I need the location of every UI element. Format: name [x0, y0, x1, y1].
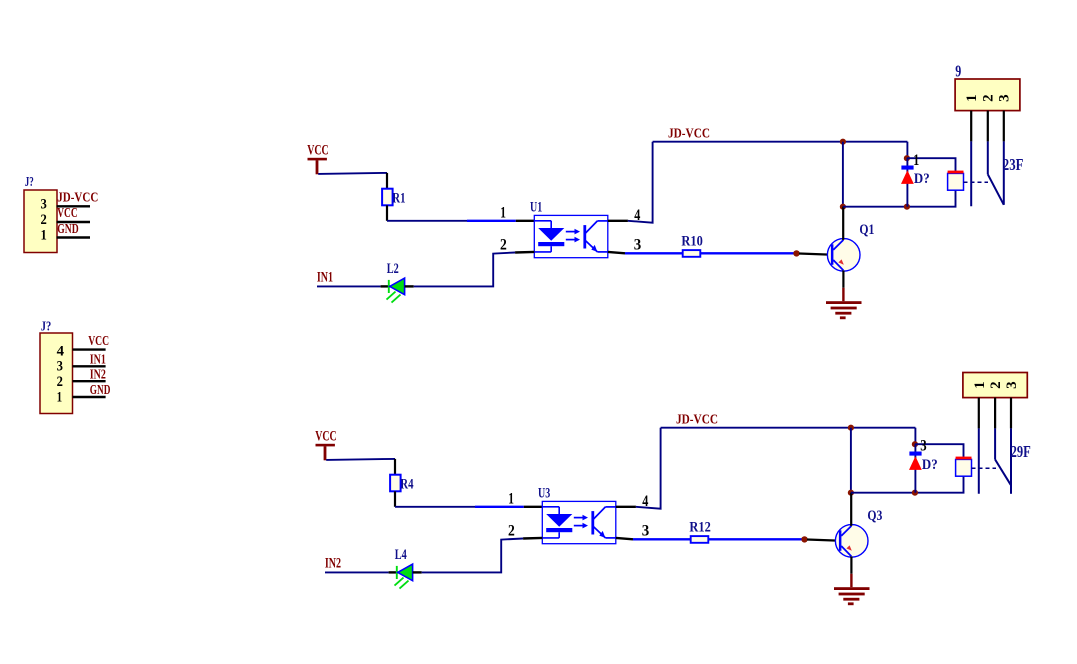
- wire junction to transistor base: [807, 540, 838, 541]
- svg-text:R4: R4: [400, 476, 414, 492]
- pin 2 stub of relay top: [987, 111, 989, 142]
- junction collector-bottom rail: [840, 204, 846, 210]
- wire emitter to ground: [842, 288, 844, 301]
- wire R1 to U1 pin 1: [387, 220, 467, 222]
- wire R12 to base junction: [708, 538, 802, 540]
- wire diode top to coil: [915, 444, 964, 457]
- svg-text:JD-VCC: JD-VCC: [57, 191, 98, 206]
- svg-text:3: 3: [1004, 381, 1020, 389]
- wire JD-VCC rail: [653, 141, 908, 143]
- pin stub of LED left: [389, 571, 398, 573]
- pin of R1 bottom: [386, 205, 388, 221]
- power symbol VCC: [315, 428, 337, 460]
- junction diode bottom: [904, 204, 910, 210]
- svg-text:1: 1: [508, 490, 514, 507]
- svg-text:9: 9: [955, 61, 961, 80]
- svg-text:2: 2: [57, 374, 63, 390]
- diode D?: [909, 444, 938, 493]
- svg-text:Q3: Q3: [867, 508, 882, 524]
- svg-text:IN1: IN1: [317, 269, 333, 285]
- wire U1 pin 4 up to JD-VCC rail: [628, 142, 653, 223]
- pin emitter of Q3: [850, 556, 852, 573]
- svg-text:D?: D?: [922, 457, 938, 473]
- wire LED to U3 pin 2: [422, 539, 523, 573]
- svg-text:4: 4: [57, 343, 64, 359]
- svg-text:JD-VCC: JD-VCC: [676, 413, 718, 428]
- junction rail-collector branch: [840, 139, 846, 145]
- wire pin3 to resistor R12: [633, 538, 691, 540]
- wire contact 3 bottom: [1010, 428, 1012, 493]
- wire bottom rail to relay coil: [851, 476, 964, 493]
- pin collector of Q3: [850, 493, 852, 526]
- pin of R1 top: [386, 173, 388, 189]
- svg-text:3: 3: [996, 94, 1012, 102]
- transistor Q1: [827, 222, 874, 271]
- wire bottom rail to relay coil: [843, 190, 956, 207]
- wire contact 2 common: [987, 141, 989, 174]
- svg-text:L2: L2: [387, 261, 399, 277]
- pin collector of Q1: [842, 207, 844, 240]
- svg-text:3: 3: [57, 359, 63, 375]
- wire JD-VCC rail: [661, 427, 916, 429]
- wire contact 3: [1003, 141, 1005, 204]
- wire VCC to R4: [326, 459, 395, 460]
- wire R4 to U3 pin 1: [395, 506, 475, 508]
- svg-text:IN1: IN1: [90, 352, 106, 367]
- svg-text:R10: R10: [681, 233, 702, 249]
- svg-text:IN2: IN2: [90, 367, 106, 382]
- svg-text:U1: U1: [530, 199, 542, 215]
- svg-text:2: 2: [508, 523, 515, 540]
- transistor Q3: [835, 508, 882, 557]
- svg-text:3: 3: [41, 197, 47, 213]
- resistor R10: [681, 233, 702, 257]
- LED L2: [387, 261, 405, 303]
- pin wire VCC of J?: [57, 221, 91, 223]
- wire segment highlighted to pin 1: [467, 220, 516, 222]
- pin stub of LED left: [381, 285, 390, 287]
- svg-text:2: 2: [41, 212, 47, 228]
- pin 1 stub of relay bottom: [978, 398, 980, 429]
- connector J? (4-pin header): [40, 320, 73, 414]
- relay coil: [948, 171, 964, 191]
- wire U3 pin 4 up to JD-VCC rail: [636, 428, 661, 509]
- svg-text:VCC: VCC: [88, 334, 109, 349]
- resistor R1: [382, 189, 405, 207]
- dashed actuation line: [972, 467, 997, 469]
- wire contact 1 bottom: [978, 428, 980, 493]
- svg-text:3: 3: [920, 438, 927, 455]
- junction diode top: [904, 155, 910, 161]
- wire collector branch vertical: [850, 428, 852, 493]
- wire IN2 to LED: [325, 571, 389, 573]
- pin 3 stub of U1: [608, 252, 625, 253]
- junction diode top: [912, 441, 918, 447]
- pin 2 stub of relay bottom: [994, 398, 996, 429]
- wire emitter to ground: [850, 574, 852, 587]
- pin of R4 bottom: [394, 491, 396, 507]
- wire contact 2 common bottom: [994, 428, 996, 459]
- wire collector branch vertical: [842, 142, 844, 207]
- wire rail down to diode: [906, 142, 908, 159]
- wire contact 1: [970, 141, 972, 206]
- svg-text:2: 2: [988, 381, 1004, 389]
- resistor R12: [689, 519, 710, 543]
- svg-text:3: 3: [634, 237, 642, 254]
- svg-text:L4: L4: [395, 547, 407, 563]
- switch arm top relay: [988, 174, 1004, 205]
- pin 1 stub of relay top: [970, 111, 972, 142]
- svg-text:1: 1: [964, 94, 980, 102]
- LED L4: [395, 547, 413, 589]
- svg-text:J?: J?: [25, 175, 34, 190]
- diode D?: [901, 158, 930, 207]
- svg-text:23F: 23F: [1003, 155, 1024, 174]
- wire LED to U1 pin 2: [414, 253, 515, 287]
- pin wire GND of J? 4-pin: [73, 396, 106, 398]
- op-amp.. optocoupler U1: [530, 199, 608, 257]
- ground: [826, 301, 862, 319]
- svg-text:VCC: VCC: [307, 142, 329, 158]
- ground: [834, 587, 870, 605]
- resistor R4: [390, 475, 414, 493]
- pin stub of LED right: [413, 571, 422, 573]
- svg-text:VCC: VCC: [315, 428, 337, 444]
- svg-text:R1: R1: [392, 190, 405, 206]
- pin emitter of Q1: [842, 270, 844, 287]
- wire VCC to R1: [318, 173, 387, 174]
- switch arm bottom relay: [995, 460, 1011, 485]
- svg-text:29F: 29F: [1011, 442, 1031, 461]
- svg-text:R12: R12: [689, 519, 710, 535]
- junction collector-bottom rail: [848, 490, 854, 496]
- junction diode bottom: [912, 490, 918, 496]
- svg-text:VCC: VCC: [57, 206, 77, 221]
- svg-text:1: 1: [913, 152, 919, 169]
- pin of R4 top: [394, 459, 396, 475]
- svg-text:D?: D?: [914, 171, 930, 187]
- pin wire IN2 of J? 4-pin: [73, 380, 106, 382]
- svg-text:1: 1: [500, 204, 506, 221]
- pin wire JD-VCC of J?: [57, 205, 91, 207]
- relay coil: [956, 457, 972, 477]
- connector J? (3-pin header): [24, 175, 57, 253]
- svg-text:3: 3: [642, 523, 650, 540]
- wire pin3 to resistor R10: [625, 252, 683, 254]
- wire diode top to coil: [907, 158, 956, 171]
- pin 3 stub of relay bottom: [1010, 398, 1012, 429]
- svg-text:GND: GND: [57, 222, 78, 237]
- pin wire IN1 of J? 4-pin: [73, 365, 106, 367]
- junction base node: [801, 536, 807, 542]
- power symbol VCC: [307, 142, 329, 174]
- pin 2 stub of U1: [515, 251, 534, 254]
- op-amp.. optocoupler U3: [538, 485, 616, 543]
- svg-text:J?: J?: [41, 320, 52, 335]
- wire junction to transistor base: [799, 254, 830, 255]
- relay contacts connector 9 (top): [955, 61, 1020, 110]
- pin stub of LED right: [405, 285, 414, 287]
- svg-text:1: 1: [41, 228, 47, 244]
- pin 1 stub of U3: [524, 506, 543, 508]
- pin 1 stub of U1: [516, 220, 535, 222]
- svg-text:2: 2: [500, 237, 507, 254]
- pin wire VCC of J? 4-pin: [73, 348, 106, 350]
- wire IN1 to LED: [317, 285, 381, 287]
- pin 4 stub of U1: [608, 220, 628, 222]
- junction base node: [793, 250, 799, 256]
- pin 2 stub of U3: [523, 537, 542, 540]
- svg-text:GND: GND: [90, 383, 111, 398]
- svg-text:IN2: IN2: [325, 555, 341, 571]
- svg-text:U3: U3: [538, 485, 550, 501]
- svg-text:1: 1: [972, 381, 988, 389]
- pin wire GND of J?: [57, 236, 91, 238]
- pin 4 stub of U3: [616, 506, 636, 508]
- relay contacts connector (bottom): [963, 373, 1027, 398]
- pin 3 stub of relay top: [1003, 111, 1005, 142]
- wire rail down to diode: [914, 428, 916, 445]
- svg-text:JD-VCC: JD-VCC: [668, 127, 710, 142]
- junction rail-collector branch: [848, 425, 854, 431]
- svg-text:Q1: Q1: [859, 222, 874, 238]
- wire R10 to base junction: [700, 252, 794, 254]
- svg-text:2: 2: [980, 94, 996, 102]
- dashed actuation line: [964, 181, 989, 183]
- svg-text:1: 1: [57, 389, 63, 405]
- wire segment highlighted to pin 1: [475, 506, 524, 508]
- pin 3 stub of U3: [616, 538, 633, 539]
